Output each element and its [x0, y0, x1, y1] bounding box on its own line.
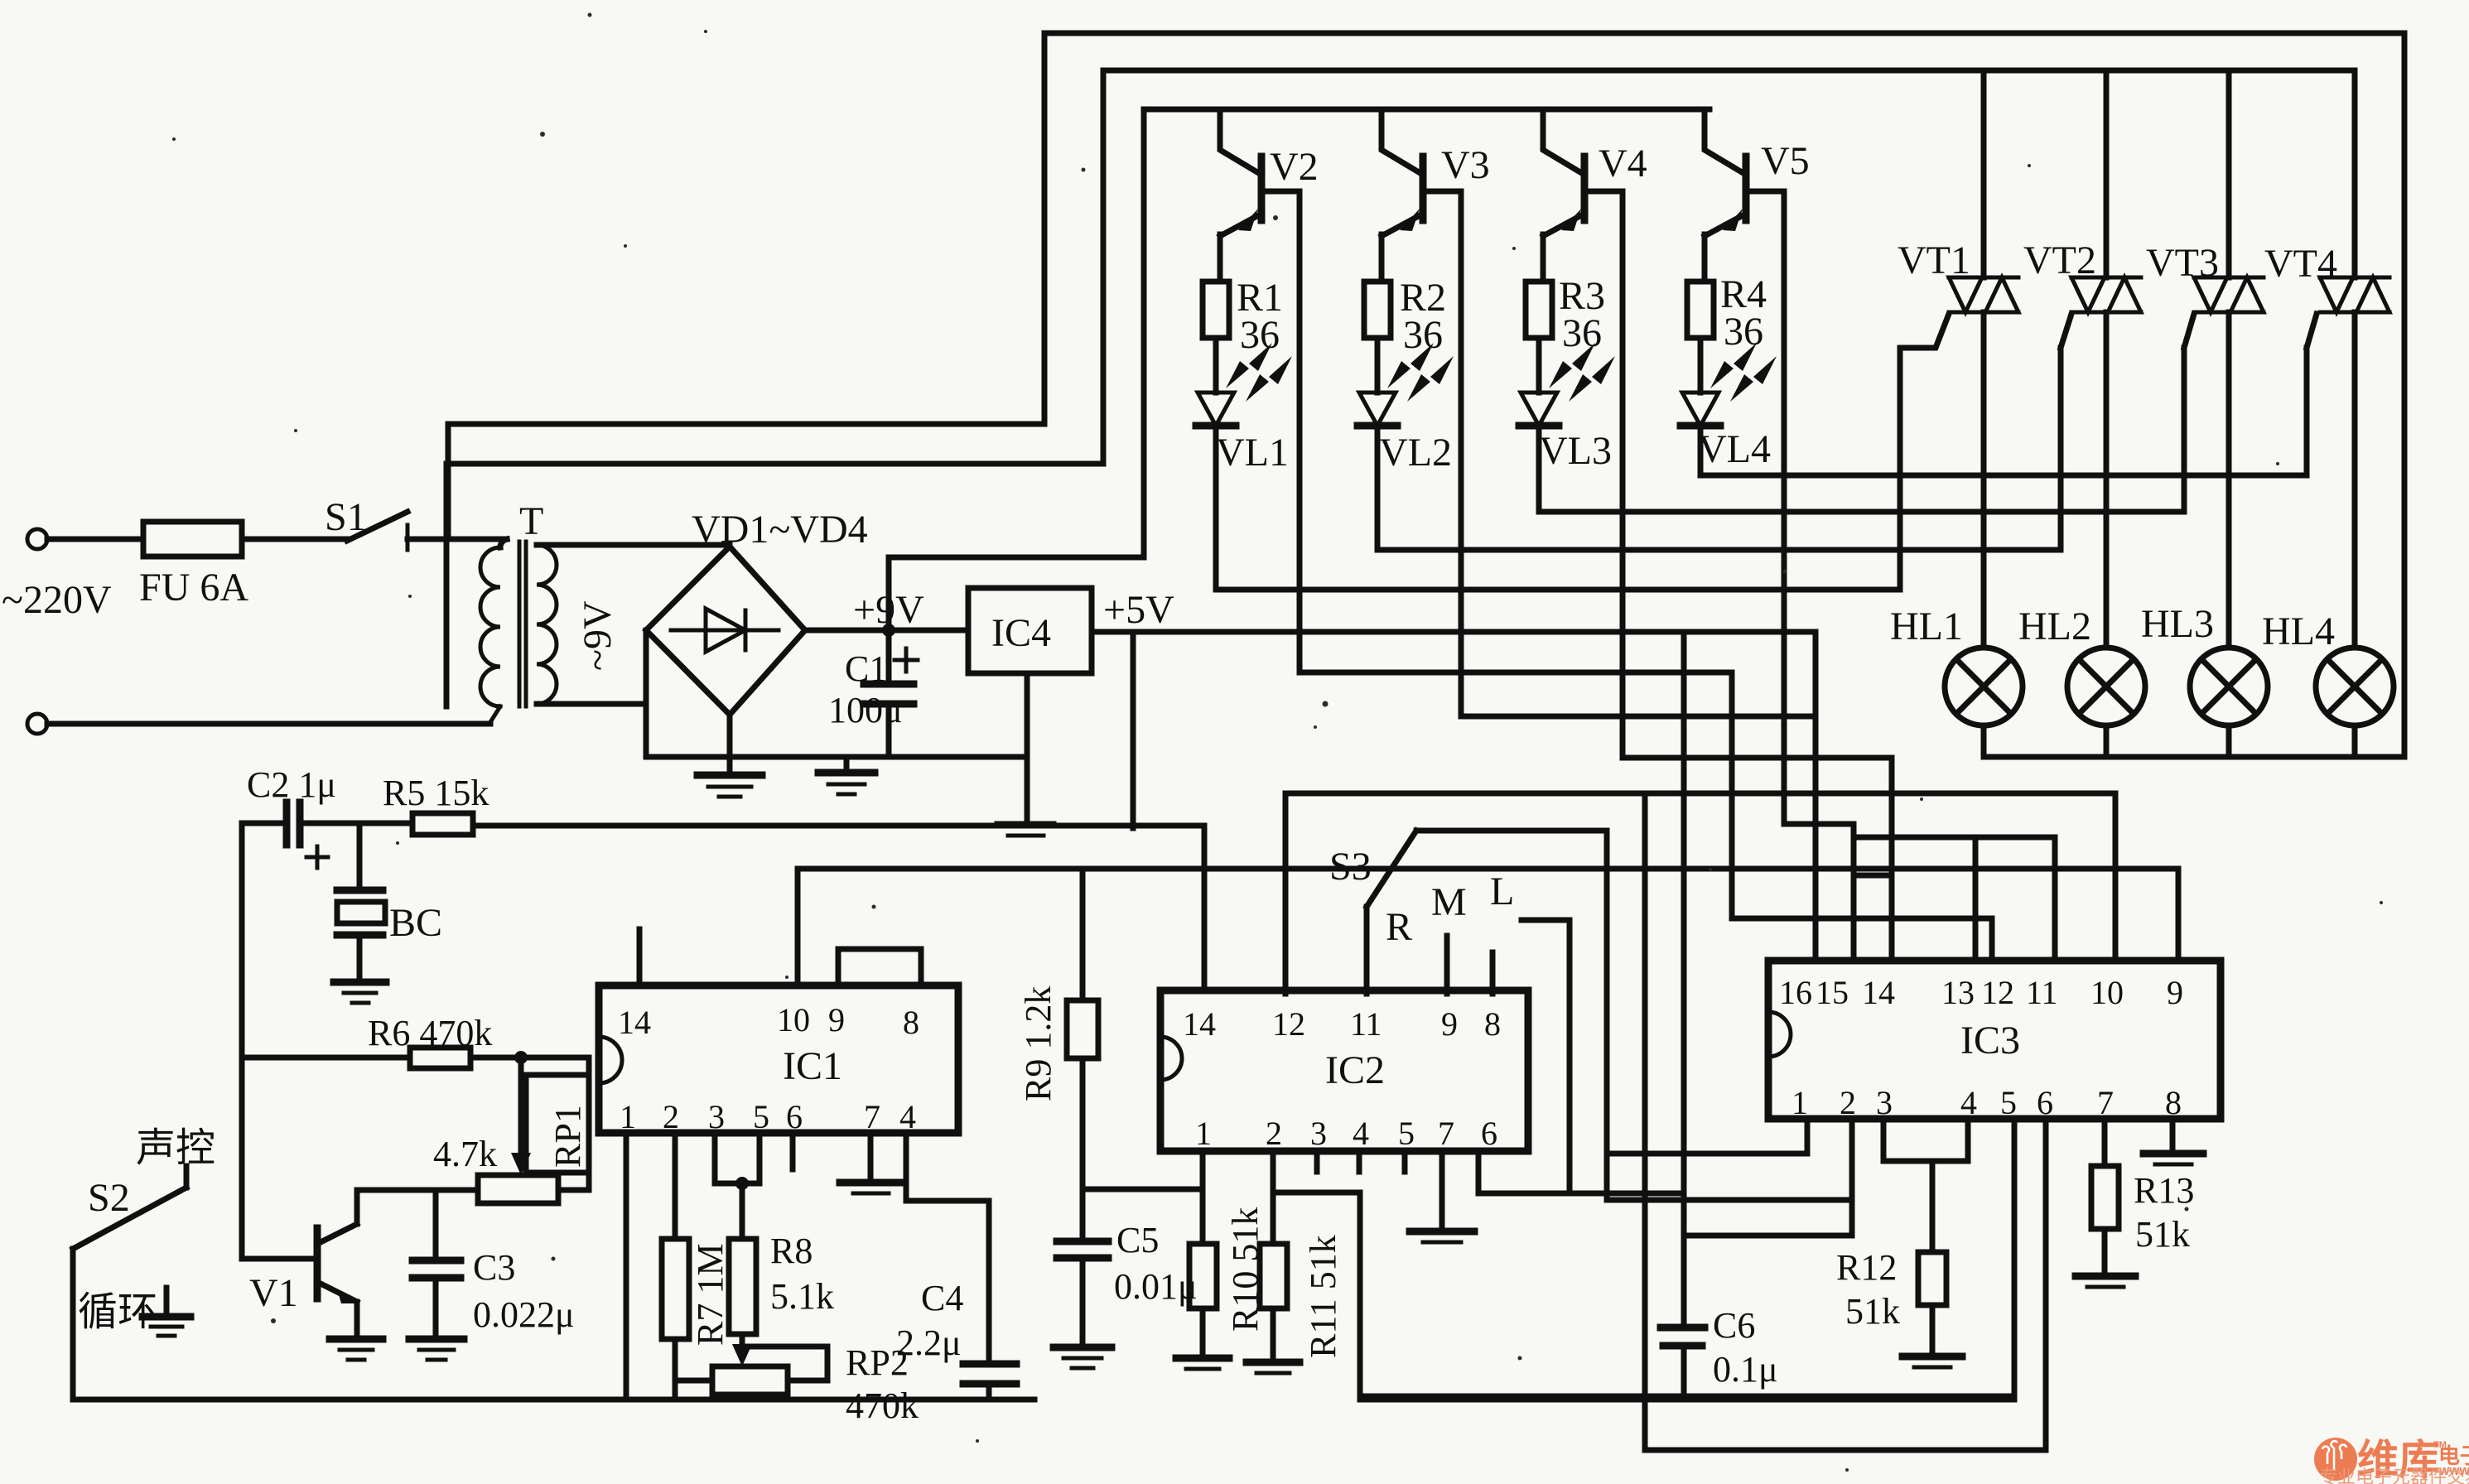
- svg-text:V3: V3: [1441, 143, 1490, 187]
- svg-text:VT2: VT2: [2023, 238, 2096, 282]
- svg-text:36: 36: [1403, 313, 1443, 357]
- svg-text:T: T: [519, 499, 543, 543]
- svg-text:FU 6A: FU 6A: [139, 566, 248, 609]
- svg-text:RP1: RP1: [547, 1105, 588, 1168]
- svg-text:HL2: HL2: [2018, 605, 2091, 648]
- svg-text:VL3: VL3: [1539, 429, 1612, 473]
- svg-text:R9 1.2k: R9 1.2k: [1018, 986, 1058, 1101]
- svg-text:11: 11: [2026, 974, 2058, 1011]
- svg-text:VL4: VL4: [1698, 427, 1771, 471]
- svg-text:9: 9: [828, 1001, 845, 1038]
- svg-text:6: 6: [2037, 1084, 2053, 1121]
- svg-text:51k: 51k: [2135, 1214, 2190, 1255]
- svg-text:0.1μ: 0.1μ: [1713, 1349, 1778, 1390]
- svg-text:1: 1: [1195, 1115, 1212, 1152]
- svg-text:5: 5: [753, 1098, 769, 1135]
- svg-text:7: 7: [864, 1098, 880, 1135]
- svg-text:IC2: IC2: [1325, 1048, 1385, 1092]
- svg-text:5: 5: [1398, 1115, 1415, 1152]
- svg-text:V5: V5: [1761, 139, 1810, 183]
- svg-text:R11 51k: R11 51k: [1303, 1235, 1343, 1358]
- svg-text:+5V: +5V: [1103, 588, 1174, 632]
- svg-text:100μ: 100μ: [828, 690, 903, 730]
- svg-text:12: 12: [1272, 1005, 1305, 1043]
- svg-text:1: 1: [1791, 1084, 1808, 1121]
- svg-text:2: 2: [1266, 1115, 1282, 1152]
- svg-text:2: 2: [1840, 1084, 1856, 1121]
- svg-text:1: 1: [620, 1098, 636, 1135]
- svg-text:R5 15k: R5 15k: [383, 773, 489, 813]
- svg-text:VD1~VD4: VD1~VD4: [692, 508, 868, 552]
- svg-text:C3: C3: [473, 1247, 515, 1288]
- svg-text:7: 7: [2097, 1084, 2114, 1121]
- svg-text:R7 1M: R7 1M: [690, 1244, 731, 1346]
- svg-text:12: 12: [1981, 974, 2014, 1011]
- svg-text:5.1k: 5.1k: [770, 1276, 834, 1317]
- svg-text:L: L: [1490, 870, 1514, 913]
- svg-text:4: 4: [1353, 1115, 1369, 1152]
- svg-text:3: 3: [708, 1098, 725, 1135]
- svg-text:M: M: [1431, 880, 1467, 924]
- svg-text:C5: C5: [1116, 1220, 1159, 1260]
- svg-text:11: 11: [1350, 1005, 1382, 1043]
- svg-text:4.7k: 4.7k: [433, 1134, 497, 1174]
- svg-text:C4: C4: [921, 1278, 963, 1318]
- svg-text:C1: C1: [845, 648, 887, 689]
- svg-text:HL4: HL4: [2262, 609, 2335, 653]
- svg-text:10: 10: [2090, 974, 2124, 1011]
- svg-text:16: 16: [1779, 974, 1812, 1011]
- svg-text:4: 4: [899, 1098, 916, 1135]
- svg-text:R8: R8: [770, 1231, 813, 1271]
- svg-text:R: R: [1386, 905, 1412, 949]
- svg-text:C2 1μ: C2 1μ: [247, 764, 336, 805]
- svg-text:0.01μ: 0.01μ: [1114, 1266, 1198, 1307]
- svg-text:36: 36: [1562, 311, 1602, 355]
- svg-text:14: 14: [618, 1004, 651, 1041]
- svg-text:8: 8: [2165, 1084, 2182, 1121]
- svg-text:2: 2: [663, 1098, 679, 1135]
- svg-text:R12: R12: [1836, 1247, 1897, 1288]
- svg-text:36: 36: [1724, 310, 1763, 354]
- svg-text:3: 3: [1310, 1115, 1327, 1152]
- svg-text:循环: 循环: [78, 1290, 157, 1334]
- svg-text:HL3: HL3: [2141, 602, 2214, 646]
- svg-text:HL1: HL1: [1890, 605, 1963, 648]
- svg-text:3: 3: [1876, 1084, 1893, 1121]
- svg-text:BC: BC: [389, 901, 442, 945]
- svg-text:~220V: ~220V: [2, 578, 112, 622]
- svg-text:470k: 470k: [846, 1385, 919, 1426]
- svg-text:VT4: VT4: [2264, 242, 2337, 286]
- svg-text:9: 9: [1441, 1005, 1458, 1043]
- svg-text:51k: 51k: [1845, 1291, 1900, 1332]
- svg-text:IC4: IC4: [991, 611, 1051, 655]
- svg-text:VL2: VL2: [1379, 431, 1452, 475]
- svg-text:IC1: IC1: [783, 1044, 842, 1088]
- svg-text:36: 36: [1240, 313, 1280, 357]
- svg-text:14: 14: [1862, 974, 1895, 1011]
- svg-text:VL1: VL1: [1216, 431, 1289, 475]
- svg-text:6: 6: [786, 1098, 803, 1135]
- svg-text:6: 6: [1481, 1115, 1497, 1152]
- svg-text:S1: S1: [325, 495, 367, 539]
- svg-text:VT1: VT1: [1898, 238, 1970, 282]
- svg-text:VT3: VT3: [2146, 241, 2219, 285]
- svg-text:~9V: ~9V: [576, 600, 620, 671]
- svg-text:7: 7: [1438, 1115, 1454, 1152]
- svg-text:9: 9: [2167, 974, 2183, 1011]
- svg-text:2.2μ: 2.2μ: [896, 1323, 962, 1363]
- svg-text:专业电子元器件交易网站: 专业电子元器件交易网站: [2319, 1467, 2469, 1484]
- svg-text:声控: 声控: [136, 1126, 215, 1170]
- svg-text:S2: S2: [88, 1176, 130, 1220]
- svg-text:5: 5: [2000, 1084, 2017, 1121]
- svg-text:4: 4: [1960, 1084, 1977, 1121]
- svg-text:8: 8: [1484, 1005, 1501, 1043]
- svg-text:8: 8: [903, 1004, 919, 1041]
- svg-text:15: 15: [1816, 974, 1849, 1011]
- svg-text:IC3: IC3: [1960, 1019, 2020, 1062]
- svg-text:13: 13: [1941, 974, 1975, 1011]
- svg-text:S3: S3: [1329, 845, 1372, 889]
- svg-text:0.022μ: 0.022μ: [473, 1294, 575, 1335]
- svg-text:14: 14: [1183, 1005, 1216, 1043]
- svg-text:V2: V2: [1270, 145, 1319, 189]
- svg-text:V4: V4: [1599, 142, 1647, 185]
- svg-text:V1: V1: [249, 1271, 298, 1315]
- svg-text:10: 10: [777, 1001, 810, 1038]
- svg-text:C6: C6: [1713, 1305, 1755, 1346]
- svg-text:R13: R13: [2134, 1170, 2194, 1211]
